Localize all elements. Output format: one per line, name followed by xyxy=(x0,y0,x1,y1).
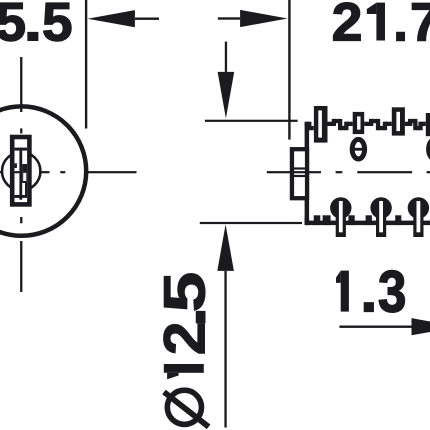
svg-text:3: 3 xyxy=(378,260,406,325)
svg-text:5: 5 xyxy=(153,272,218,313)
svg-text:2: 2 xyxy=(332,0,363,53)
svg-text:.: . xyxy=(23,0,42,52)
svg-text:5: 5 xyxy=(42,0,73,52)
svg-text:.: . xyxy=(393,0,408,53)
svg-text:5: 5 xyxy=(0,0,26,52)
svg-text:.: . xyxy=(360,260,377,325)
svg-text:7: 7 xyxy=(410,0,430,53)
